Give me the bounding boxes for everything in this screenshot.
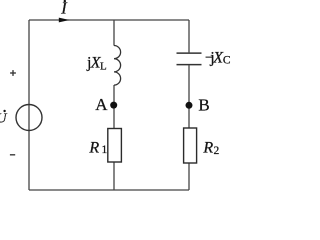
svg-text:1: 1 [102, 144, 108, 156]
svg-text:B: B [198, 96, 209, 115]
svg-text:I: I [60, 0, 68, 18]
svg-text:jXL: jXL [86, 54, 107, 72]
svg-text:U: U [0, 112, 7, 127]
svg-text:R: R [88, 139, 99, 156]
svg-text:−jXC: −jXC [205, 49, 231, 66]
svg-text:A: A [95, 95, 108, 114]
svg-text:2: 2 [214, 145, 220, 157]
svg-text:R: R [202, 140, 213, 157]
